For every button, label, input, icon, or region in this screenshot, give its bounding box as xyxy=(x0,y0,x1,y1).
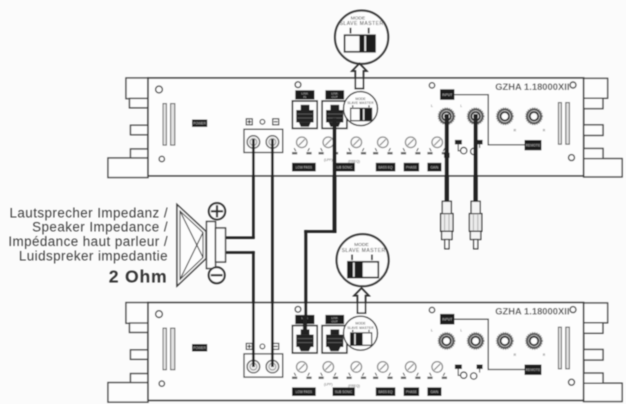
svg-text:Speaker Impedance /: Speaker Impedance / xyxy=(32,220,168,235)
svg-text:SLAVE MASTER: SLAVE MASTER xyxy=(342,248,386,254)
svg-text:2 Ohm: 2 Ohm xyxy=(109,267,168,287)
svg-text:Luidspreker impedantie: Luidspreker impedantie xyxy=(19,249,168,264)
svg-text:SLAVE MASTER: SLAVE MASTER xyxy=(340,21,384,27)
svg-text:Lautsprecher Impedanz /: Lautsprecher Impedanz / xyxy=(10,205,168,220)
svg-text:Impédance haut parleur /: Impédance haut parleur / xyxy=(8,234,168,249)
